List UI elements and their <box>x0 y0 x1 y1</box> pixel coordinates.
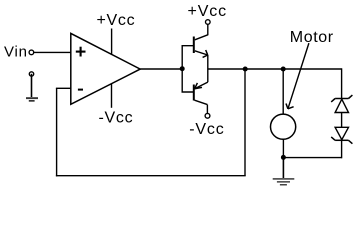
op-amp U1 <box>71 33 140 104</box>
node base junction <box>180 66 185 71</box>
transistor Q1 (NPN top) <box>194 35 208 58</box>
wire base column <box>182 46 193 92</box>
svg-text:+Vcc: +Vcc <box>188 3 227 20</box>
wire Q1 collector to +Vcc <box>207 24 209 35</box>
svg-text:Vin: Vin <box>4 44 28 61</box>
wire feedback bottom rail <box>56 175 246 177</box>
wire Q2 collector to -Vcc <box>206 105 208 114</box>
wire Q2 emitter to output <box>207 69 209 82</box>
wire to ground <box>282 158 284 179</box>
node feedback junction <box>243 67 248 72</box>
diode D1 (zener top) <box>331 95 352 112</box>
arrow Motor pointer <box>286 43 309 109</box>
wire feedback right column <box>244 69 246 176</box>
op-amp plus sign <box>76 47 86 57</box>
terminal Vin <box>29 50 34 55</box>
wire op-amp output to bases <box>140 68 182 70</box>
wire motor bottom <box>282 139 284 157</box>
wire zener column bottom <box>341 140 343 158</box>
wire ground stub <box>31 74 33 97</box>
wire Q1 emitter to output <box>207 55 209 69</box>
ground GND1 <box>26 97 38 102</box>
svg-text:Motor: Motor <box>290 29 334 46</box>
wire output rail <box>208 68 342 70</box>
wire motor bottom to zener return <box>283 157 341 159</box>
terminal +Vcc transistor <box>206 20 211 25</box>
terminal -Vcc transistor <box>205 113 210 118</box>
wire -Vcc to op-amp <box>111 84 113 108</box>
node motor junction top <box>281 67 286 72</box>
wire between zeners <box>341 113 343 128</box>
wire feedback left column <box>56 88 58 176</box>
wire Vin to op-amp + input <box>34 51 71 53</box>
wire to op-amp - input <box>56 87 71 89</box>
terminal ground input <box>29 72 33 76</box>
svg-text:-Vcc: -Vcc <box>99 109 134 126</box>
op-amp minus sign <box>78 89 83 91</box>
wire zener column top <box>341 68 343 98</box>
motor M1 <box>271 114 296 139</box>
ground GND2 <box>273 178 295 185</box>
svg-text:-Vcc: -Vcc <box>189 121 224 138</box>
node motor bottom junction <box>281 155 286 160</box>
wire +Vcc to op-amp <box>111 29 113 56</box>
diode D2 (zener bottom) <box>331 127 352 143</box>
transistor Q2 (PNP bottom) <box>194 82 208 105</box>
svg-text:+Vcc: +Vcc <box>97 12 136 29</box>
wire motor top <box>282 69 284 114</box>
